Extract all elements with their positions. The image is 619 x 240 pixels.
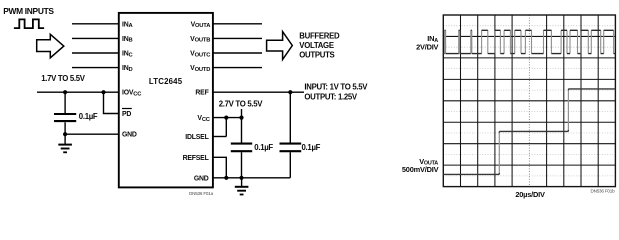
svg-text:0.1µF: 0.1µF: [302, 143, 321, 152]
svg-text:2V/DIV: 2V/DIV: [416, 43, 438, 52]
svg-text:DN536 F01b: DN536 F01b: [590, 188, 615, 193]
svg-text:OUTPUT: 1.25V: OUTPUT: 1.25V: [304, 92, 358, 101]
svg-text:REF: REF: [195, 90, 208, 97]
svg-text:0.1µF: 0.1µF: [79, 112, 98, 121]
svg-text:PWM INPUTS: PWM INPUTS: [3, 6, 54, 16]
svg-text:INB: INB: [122, 36, 133, 44]
svg-text:0.1µF: 0.1µF: [254, 143, 273, 152]
svg-text:REFSEL: REFSEL: [183, 155, 209, 162]
svg-text:VOUTB: VOUTB: [190, 36, 210, 44]
svg-text:VOUTA: VOUTA: [191, 21, 212, 29]
svg-text:INC: INC: [122, 51, 134, 59]
svg-text:LTC2645: LTC2645: [149, 77, 183, 86]
svg-text:1.7V TO 5.5V: 1.7V TO 5.5V: [41, 74, 86, 83]
svg-text:DN536 F01a: DN536 F01a: [189, 191, 214, 196]
svg-text:2.7V TO 5.5V: 2.7V TO 5.5V: [219, 99, 264, 108]
svg-text:INPUT: 1V TO 5.5V: INPUT: 1V TO 5.5V: [304, 82, 368, 91]
svg-text:VOUTC: VOUTC: [190, 51, 211, 59]
svg-text:OUTPUTS: OUTPUTS: [299, 51, 334, 60]
svg-text:BUFFERED: BUFFERED: [299, 32, 340, 41]
svg-text:VOLTAGE: VOLTAGE: [299, 41, 334, 50]
svg-text:GND: GND: [194, 175, 209, 182]
svg-text:IDLSEL: IDLSEL: [185, 134, 208, 141]
svg-text:20µs/DIV: 20µs/DIV: [515, 190, 545, 199]
svg-text:VCC: VCC: [197, 115, 210, 123]
svg-text:VOUTD: VOUTD: [190, 65, 210, 73]
svg-text:PD: PD: [122, 111, 131, 118]
svg-text:500mV/DIV: 500mV/DIV: [402, 165, 439, 174]
svg-text:IOVCC: IOVCC: [122, 90, 142, 98]
svg-text:IND: IND: [122, 65, 133, 73]
svg-text:GND: GND: [122, 132, 137, 139]
svg-text:INA: INA: [122, 21, 134, 29]
